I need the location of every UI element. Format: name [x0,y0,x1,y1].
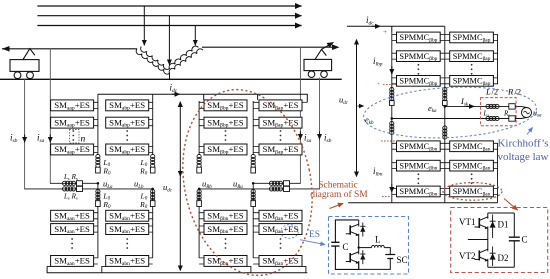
wire mid lower left (i_sb to u_Lb) [25,188,153,190]
inductor arm upper right col [443,87,447,100]
node junction a [97,182,100,185]
resistor R0 upper Ba [251,167,256,173]
SPMMC module SPMMC_βbn row2 [397,160,441,171]
SM capacitor C [513,213,515,267]
svg-text:isb: isb [324,133,332,145]
highlight ellipse beta section [166,77,328,279]
SM module SM_βap row1 [259,100,302,111]
arrow i_sa left [49,135,51,142]
ES capacitor C [331,220,358,270]
wire feeder i_sb left [24,79,26,189]
node dots SPMMC βbn [418,173,420,184]
wire top bus drop col Ba [257,94,259,100]
wire chain side vertical b lower [152,189,154,258]
locomotive right pantograph [315,49,326,59]
wire top bus hook Ba right [302,101,307,103]
inductor L0 upper Ba [251,154,255,167]
SM module SM_abn row3 [106,256,149,267]
locomotive right pantograph arrow [322,43,334,50]
wire bottom drop Ba [302,266,306,272]
svg-text:VT1: VT1 [459,217,476,227]
wire top bus drop col Bb [203,94,205,100]
resistor Rs lower left [77,186,83,191]
svg-text:idc: idc [366,15,374,27]
SM module SM_aap row1 [51,100,94,111]
node junction Bb [198,188,201,191]
inductor arm lower left col [390,121,394,134]
wire SPMMC right bus lower [497,143,499,202]
node dots column Bb lower [225,238,227,249]
SM box dashed border [451,208,548,273]
SM module SM_βbp row3 [204,144,247,155]
resistor arm upper left col [390,101,395,106]
svg-text:n: n [81,135,86,145]
resistor Rs lower right [284,186,290,191]
ES wire L to SC [359,248,391,270]
SM top rail [488,213,515,267]
ES mid node wire to L [359,247,372,249]
ES supercap SC [385,255,395,259]
arrow i_dc top [372,25,380,27]
n-count bracket col a [70,130,80,144]
SM module SM_βbp row2 [204,117,247,128]
wire bottom drop b [102,266,106,272]
inductor Ls load [486,116,499,120]
SPMMC module SPMMC_βap row2 [450,51,494,62]
SM module SM_aan row1 [51,210,94,221]
ES dashed circle on SM box [281,225,299,239]
inductor arm lower right col [443,126,447,139]
inductor Ls lower left [62,187,75,191]
arrow i_lbn [391,184,393,192]
locomotive left body [10,60,39,72]
arrow to SM detail [504,199,518,211]
svg-text:isa: isa [37,133,45,145]
wire feeder i_sb right [319,78,321,189]
SM module SM_βbn row2 [204,224,247,235]
SPMMC module SPMMC_βan row3 [450,186,494,197]
ES IGBT upper [346,220,359,248]
wire stubs SPMMC_βan row3 [445,189,498,195]
wire DC bottom bus [47,266,307,272]
wire stubs SPMMC_βap row3 [445,78,498,84]
inductor Ls upper left [62,181,75,185]
inductor Ls upper right [269,181,282,185]
wire drop to left bus [391,26,393,32]
SM diode D1 [490,215,496,239]
wire catenary right [203,46,335,48]
SPMMC module SPMMC_βan row1 [450,141,494,152]
SM module SM_abp row2 [106,117,149,128]
measure u_dc right [356,40,358,177]
wire 3-phase line 3 [38,25,301,27]
highlight ellipse SPMMC_Ban [443,183,502,201]
SPMMC module SPMMC_βap row3 [450,76,494,87]
dashed box line impedance [481,98,516,126]
svg-text:udc: udc [339,95,349,106]
svg-text:+: + [377,81,381,88]
polarity mark mid [381,140,397,142]
inductor Ls lower right [269,187,282,191]
resistor arm upper right col [443,101,448,106]
wire chain side vertical Bb upper [198,101,200,155]
SPMMC module SPMMC_βbp row3 [397,76,441,87]
resistor R0 lower Bb [197,201,202,207]
svg-text:C: C [343,242,349,252]
wire transformer primary tap middle [168,16,170,65]
svg-text:SC: SC [397,255,408,265]
svg-text:+: + [383,27,387,36]
node dots column a lower [71,238,73,249]
SPMMC module SPMMC_βbn row3 [397,186,441,197]
SM module SM_abp row1 [106,100,149,111]
inductor L0 upper b [151,154,155,167]
svg-text:ilbn: ilbn [373,166,383,178]
svg-text:ilbp: ilbp [373,56,383,68]
inductor L0 lower Bb [197,189,201,202]
measure u_dc left [179,102,181,271]
resistor Rs upper left [77,181,83,186]
SM module SM_βan row3 [259,256,302,267]
arrow schematic label [330,203,344,208]
inductor L0 lower Ba [251,189,255,202]
arrow i_sb right [319,132,321,139]
node dots column a upper [72,130,74,141]
arrow i_sb left [24,135,26,142]
wire stubs SPMMC_βan row2 [445,163,498,169]
SM module SM_aap row2 [51,117,94,128]
node dots column b upper [126,130,128,141]
svg-text:uLb: uLb [134,179,144,190]
SM module SM_βbn row3 [204,256,247,267]
svg-text:C: C [522,235,528,245]
wire e_kb to load [392,118,522,120]
inductor arm upper left col [390,87,394,100]
wire bottom drop Bb [247,266,251,272]
svg-text:udc: udc [163,182,173,193]
node e_ka [444,105,447,108]
SM module SM_βbn row1 [204,210,247,221]
ES box dashed border [329,217,409,275]
wire chain side vertical Ba lower [252,183,254,258]
wire transformer mid to rail [169,73,171,79]
svg-text:Ls: Ls [483,110,490,118]
wire e_ka to load [445,105,522,107]
wire stubs SPMMC_βap row2 [445,53,498,59]
SM IGBT1 [475,213,488,240]
SM module SM_βap row2 [259,117,302,128]
SM module SM_abp row3 [106,144,149,155]
resistor R0 lower Ba [251,201,256,207]
ES IGBT lower [346,248,359,270]
wire SPMMC left bus [391,32,393,203]
inductor L0 lower a [96,189,100,202]
arrow ES to box [300,240,325,245]
resistor R0 upper a [96,167,101,173]
inductor L/2 [486,104,499,108]
svg-text:Schematic: Schematic [318,181,358,191]
wire catenary left [3,48,137,50]
arrow mid u_dc left [179,170,181,176]
svg-text:voltage law: voltage law [497,151,548,163]
svg-text:ES: ES [309,230,320,240]
node dots column Ba upper [280,130,282,141]
wire stubs SPMMC_βan row1 [445,143,498,149]
SPMMC module SPMMC_βbn row1 [397,141,441,152]
wire chain side vertical b upper [152,94,154,155]
SM module SM_abn row1 [106,210,149,221]
node dots column Bb upper [225,130,227,141]
wire chain side vertical a upper [97,94,99,155]
wire 3-phase line 2 [38,15,301,17]
svg-text:isb: isb [10,133,18,145]
wire stubs SPMMC_βap row1 [445,35,498,41]
svg-text:isa: isa [304,133,312,145]
resistor R0 lower b [150,201,155,207]
node dots SPMMC βbp [418,64,420,75]
arrow I_sk [466,105,474,107]
inductor L0 lower b [151,189,155,202]
svg-text:uRa: uRa [233,179,243,190]
wire SPMMC middle bus [444,26,446,202]
svg-text:LsRs: LsRs [63,192,78,200]
wire stubs SPMMC_βbn row2 [392,163,445,169]
SPMMC module SPMMC_βan row2 [450,160,494,171]
wire chain side vertical Bb lower [198,189,200,258]
SPMMC module SPMMC_βap row1 [450,32,494,43]
wire rail [0,78,341,80]
SM mid rail [468,239,488,241]
polarity mark low [382,196,393,198]
svg-text:ekb: ekb [365,115,374,126]
KVL blue ellipse [362,83,537,142]
wire stubs SPMMC_βbn row3 [392,189,445,195]
wire chain side vertical Ba upper [252,101,254,155]
node dots column b lower [126,238,128,249]
SPMMC module SPMMC_βbp row1 [397,32,441,43]
svg-text:D1: D1 [498,220,509,230]
SM module SM_βbp row1 [204,100,247,111]
arrow KVL [527,128,533,135]
wire SPMMC right bus upper [497,35,499,85]
source u_sa [522,108,532,118]
catenary left arrow [2,46,10,52]
SM module SM_abn row2 [106,224,149,235]
resistor Rs upper right [284,181,290,186]
node e_kb [391,117,394,120]
SM module SM_aan row2 [51,224,94,235]
inductor L0 upper Bb [197,154,201,167]
SM module SM_aan row3 [51,256,94,267]
locomotive right body [304,59,332,70]
locomotive left pantograph [23,49,35,60]
SM module SM_βan row2 [259,224,302,235]
locomotive right wheels [308,71,315,78]
SM module SM_aap row3 [51,144,94,155]
wire feeder i_sa right [299,47,301,183]
node junction Ba [252,182,255,185]
SM IGBT2 [475,240,488,268]
locomotive left wheels [14,72,21,79]
wire feeder i_sa left [49,49,51,184]
ES diode lower [360,250,365,264]
resistor R0 upper b [150,167,155,173]
wire mid lower right (u_Rb to i_sb) [199,188,319,190]
ES inductor L [372,245,385,247]
arrow i_lbp [391,66,393,74]
SM module SM_βan row1 [259,210,302,221]
svg-text:diagram of SM: diagram of SM [310,189,368,200]
wire stubs SPMMC_βbp row2 [392,53,445,59]
wire mid upper right (u_Ra to i_sa) [253,182,300,184]
node dots SPMMC βap [471,64,473,75]
svg-text:LsRs: LsRs [63,173,78,181]
svg-text:uLa: uLa [103,179,113,190]
svg-text:Rs: Rs [503,110,510,118]
wire stubs SPMMC_βbp row3 [392,78,445,84]
svg-text:Kirchhoff’s: Kirchhoff’s [497,138,548,150]
node dots SPMMC βan [471,173,473,184]
svg-text:L: L [375,235,381,245]
svg-text:eka: eka [428,103,437,114]
svg-text:D2: D2 [498,253,509,263]
arrow u_dc right pointer [358,105,364,107]
resistor Rs load [509,116,515,121]
SPMMC module SPMMC_βbp row2 [397,51,441,62]
wire bottom drop stub a [47,265,51,267]
wire transformer primary tap left [143,6,145,45]
arrow i_sa right [299,132,301,139]
wire bottom bus right section [348,202,497,204]
SM diode D2 [490,247,496,267]
svg-text:Isk: Isk [460,96,469,107]
wire transformer primary tap right [194,26,196,46]
svg-text:/2: /2 [492,87,499,97]
catenary right arrow [332,44,340,50]
wire stubs SPMMC_βbp row1 [392,35,445,41]
node junction b [151,188,154,191]
inductor L0 upper a [96,154,100,167]
wire chain side vertical a lower [97,183,99,258]
svg-text:VT2: VT2 [459,251,476,261]
svg-text:idc: idc [170,83,178,95]
transformer T1 V-winding outer [136,49,202,74]
wire 3-phase line 1 [38,5,301,7]
ES diode upper [360,223,365,237]
arrow i_dc on bus [172,93,180,95]
wire stubs SPMMC_βbn row1 [392,143,445,149]
resistor R0 lower a [96,201,101,207]
wire i_dc top [347,25,445,27]
SM module SM_βap row3 [259,144,302,155]
wire DC top bus [98,94,307,102]
svg-text:uRb: uRb [202,179,212,190]
transformer T1 V-winding inner [141,46,198,69]
wire mid upper left (i_sa to u_La) [50,182,98,184]
resistor R0 upper Bb [197,167,202,173]
resistor R/2 [509,104,515,109]
node dots column Ba lower [280,238,282,249]
